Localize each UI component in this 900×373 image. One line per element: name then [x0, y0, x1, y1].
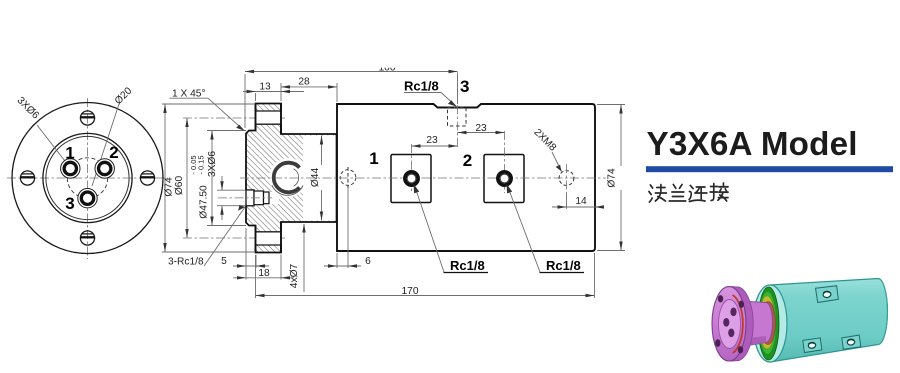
svg-text:3: 3 — [65, 194, 74, 213]
svg-text:Ø60: Ø60 — [174, 176, 185, 196]
svg-text:2: 2 — [109, 143, 118, 162]
svg-text:28: 28 — [298, 77, 310, 88]
svg-text:18: 18 — [258, 268, 270, 279]
svg-text:6: 6 — [365, 256, 371, 267]
svg-text:Rc1/8: Rc1/8 — [404, 79, 439, 94]
svg-text:3-Rc1/8: 3-Rc1/8 — [168, 257, 204, 268]
svg-text:1: 1 — [369, 149, 378, 168]
svg-text:3: 3 — [460, 77, 469, 96]
svg-text:23: 23 — [475, 123, 487, 134]
svg-text:5: 5 — [221, 256, 227, 267]
svg-text:14: 14 — [575, 196, 587, 207]
svg-text:Ø74: Ø74 — [607, 168, 618, 188]
svg-text:1: 1 — [65, 144, 74, 163]
svg-text:23: 23 — [426, 135, 438, 146]
svg-text:4xØ7: 4xØ7 — [289, 263, 300, 288]
svg-text:- 0.15: - 0.15 — [197, 155, 206, 174]
svg-text:Ø47.50: Ø47.50 — [199, 185, 210, 219]
svg-text:170: 170 — [402, 286, 419, 297]
svg-text:Rc1/8: Rc1/8 — [450, 258, 485, 273]
svg-text:Ø44: Ø44 — [310, 168, 321, 188]
svg-text:2: 2 — [463, 151, 472, 170]
svg-text:Y3X6A Model: Y3X6A Model — [647, 126, 858, 163]
svg-text:3XØ6: 3XØ6 — [207, 151, 218, 177]
svg-text:Ø74: Ø74 — [164, 177, 175, 197]
svg-text:13: 13 — [259, 82, 271, 93]
svg-text:Rc1/8: Rc1/8 — [546, 258, 581, 273]
